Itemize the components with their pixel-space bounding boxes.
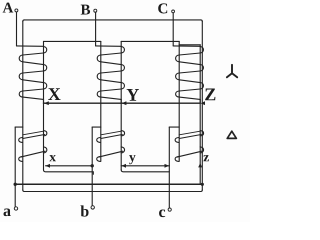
primary coil 3 (C-Z) [173, 46, 203, 103]
label X [48, 88, 60, 100]
junction dot z line [201, 183, 204, 186]
wire ring top-left corner [23, 20, 25, 22]
wire ring bottom [24, 191, 201, 193]
label x [49, 155, 56, 161]
label C [158, 3, 167, 13]
wire B [95, 12, 97, 46]
wire ring right [201, 21, 203, 190]
node b stub [92, 126, 101, 128]
wire ring top-right corner [201, 20, 203, 22]
label c [159, 209, 165, 217]
wire terminal a [14, 127, 16, 207]
label b [81, 205, 89, 216]
wire y to c [121, 165, 169, 167]
wire ring bottom-right corner [201, 190, 203, 192]
arrow at Y junction [122, 101, 127, 105]
node c stub [169, 126, 179, 128]
wire ring top [24, 19, 201, 21]
terminal A circle [15, 9, 18, 12]
primary coil 1 (A-X) [17, 46, 47, 103]
wire guide limb1 [43, 41, 45, 169]
terminal b circle [91, 206, 94, 209]
junction dot a [14, 183, 17, 186]
node a stub [15, 126, 23, 128]
arrow into c wire [165, 164, 170, 168]
terminal C circle [172, 10, 175, 13]
label A [3, 3, 14, 13]
wire ring left [22, 21, 24, 190]
junction dot x-b [91, 164, 94, 167]
secondary coil 2 (b-y) [97, 131, 125, 162]
primary coil 2 (B-Y) [96, 46, 125, 103]
label Y [127, 89, 139, 101]
wire ring bottom-left corner [23, 190, 25, 192]
wire terminal b [91, 127, 93, 206]
arrow at y [121, 164, 126, 168]
wire limb1 lower link [44, 170, 94, 175]
wire feeder node c [178, 41, 180, 161]
wire link to limb3 guide [179, 44, 200, 46]
arrow at x [45, 164, 50, 168]
wire link limb2-limb3 [121, 40, 179, 42]
secondary coil 1 (a-x) [19, 131, 47, 162]
label Z [205, 89, 215, 101]
label z [203, 155, 208, 161]
wire star bus X-Y-Z [44, 102, 201, 104]
wire guide limb3 [199, 45, 201, 185]
label y [129, 155, 135, 164]
terminal a circle [14, 207, 17, 210]
wire terminal c [168, 127, 170, 208]
star (wye) symbol [227, 65, 237, 78]
delta symbol [227, 131, 236, 138]
secondary coil 3 (c-z) [175, 131, 203, 162]
wire C [172, 13, 174, 46]
label a [4, 208, 11, 216]
wire feeder node b [100, 41, 102, 161]
label B [81, 5, 90, 15]
wire guide limb2 [120, 41, 122, 169]
wire link limb1-limb2 [44, 40, 101, 42]
arrow at Z junction [201, 101, 205, 105]
arrow at X junction [44, 101, 49, 105]
terminal B circle [94, 9, 97, 12]
wire z bottom line [15, 183, 202, 185]
wire A [16, 12, 18, 46]
wire x to b [46, 165, 93, 167]
arrow at z [198, 163, 202, 167]
wire limb2 lower link [121, 170, 169, 172]
terminal c circle [168, 208, 171, 211]
